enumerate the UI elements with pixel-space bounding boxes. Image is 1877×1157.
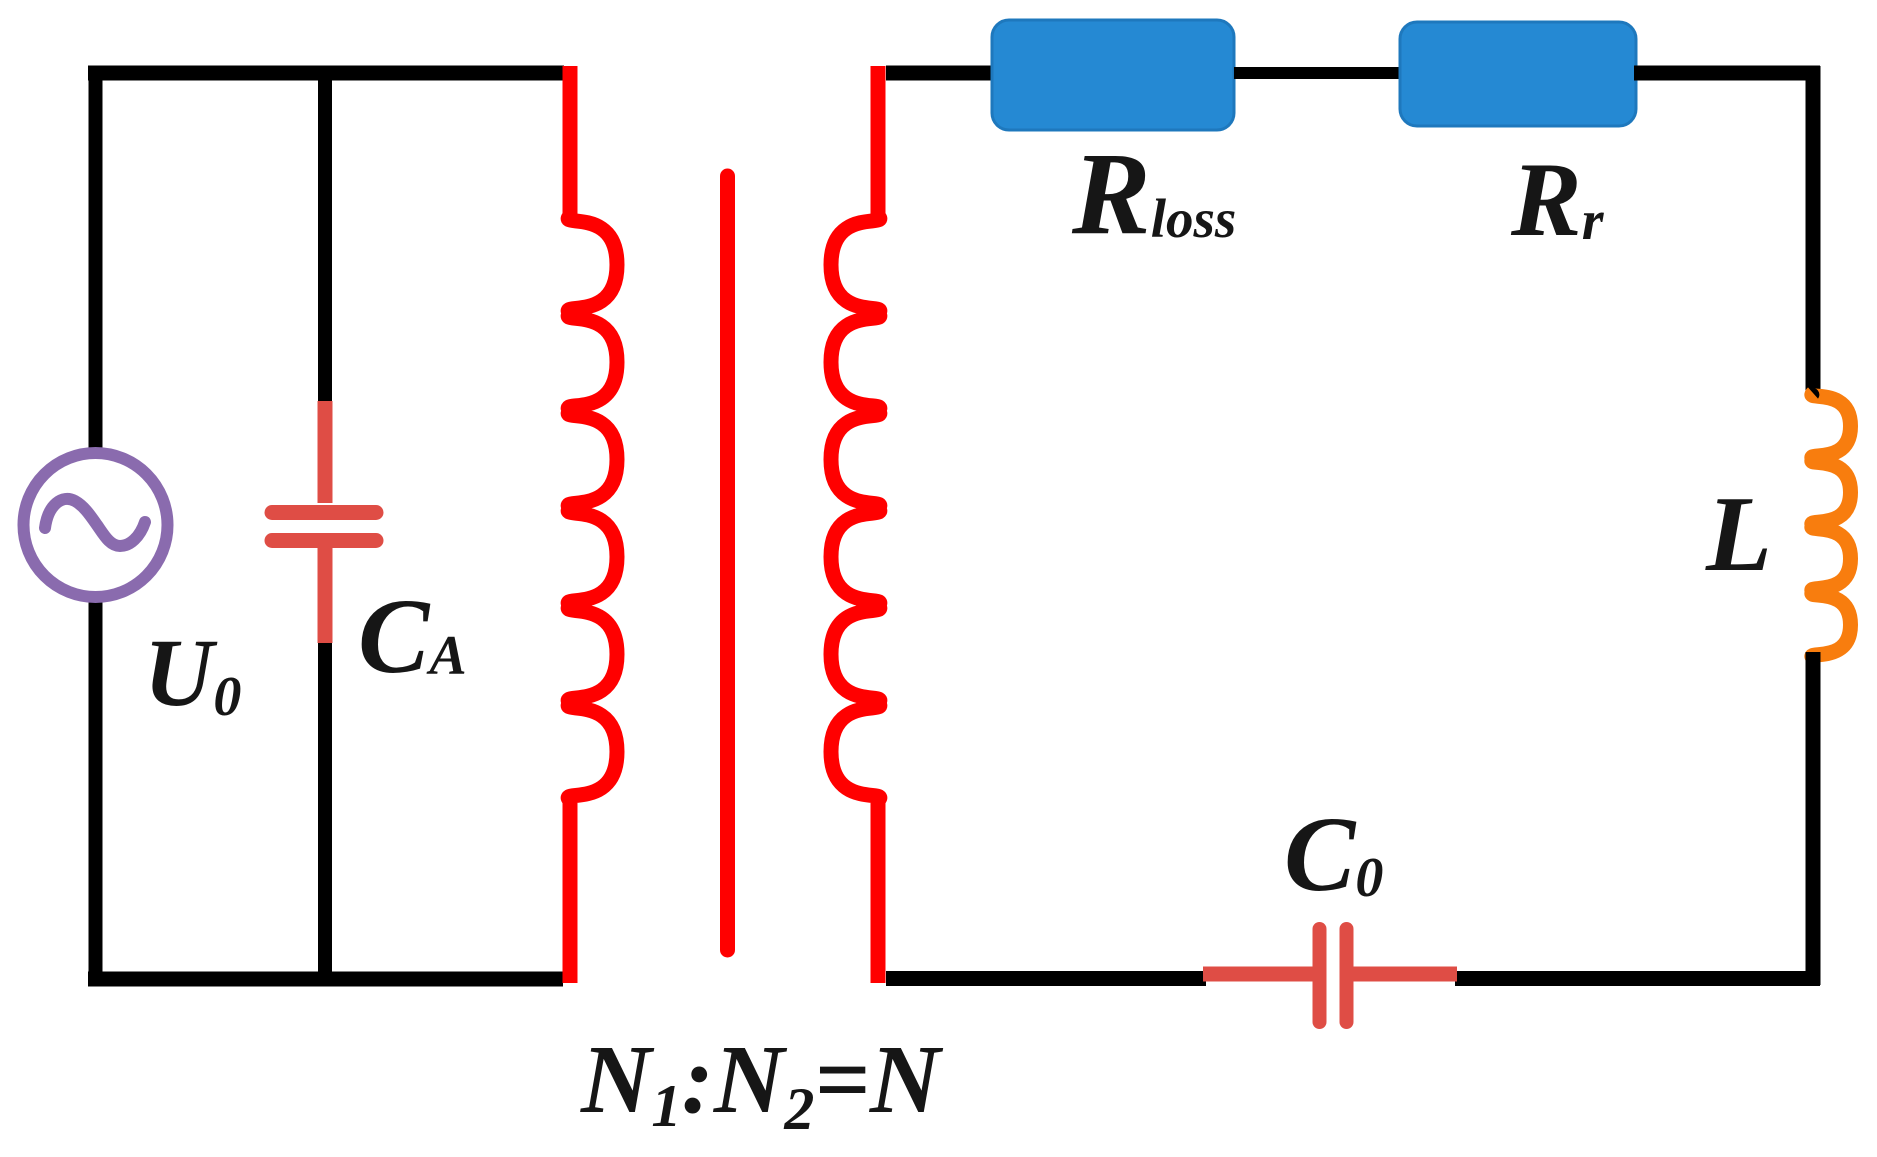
svg-text:Rr: Rr [1510,141,1605,258]
capacitor CA lead top (red) [318,401,333,503]
wire left vertical (below source) [89,598,103,985]
svg-text:N1:N2=N: N1:N2=N [580,1026,944,1142]
wire CA branch bottom [318,640,332,979]
wire between Rloss and Rr [1234,67,1403,79]
resistor Rr [1400,22,1636,126]
AC source sine symbol [45,499,145,546]
svg-text:Rloss: Rloss [1071,128,1236,259]
transformer secondary winding N2 [831,66,880,983]
wire top-right horizontal (secondary to Rloss) [886,66,996,81]
inductor L [1812,393,1851,658]
svg-text:C0: C0 [1284,796,1383,914]
wire bottom-right horizontal [1455,971,1820,986]
capacitor C0 lead right (red) [1353,967,1457,982]
resistor Rloss [992,20,1234,130]
capacitor CA bottom plate [272,533,376,548]
wire bottom-left horizontal [88,972,563,987]
wire bottom-middle horizontal [886,971,1206,986]
capacitor C0 right plate [1340,929,1354,1022]
wire after Rr to right corner [1634,66,1820,81]
wire top-left horizontal [88,66,564,81]
capacitor CA top plate [272,505,376,520]
wire right vertical (top) [1806,66,1821,399]
transformer primary winding N1 [568,66,617,983]
AC source U0 circle [24,453,168,597]
transformer core [720,176,735,950]
svg-text:U0: U0 [144,619,241,728]
capacitor C0 lead left (red) [1203,967,1313,982]
wire left vertical (top) [89,66,103,455]
capacitor C0 left plate [1313,929,1327,1022]
svg-text:CA: CA [358,578,467,696]
capacitor CA lead bottom (red) [318,548,333,643]
wire right vertical (bottom) [1806,652,1821,985]
svg-text:L: L [1705,475,1772,594]
wire CA branch top [318,73,332,408]
